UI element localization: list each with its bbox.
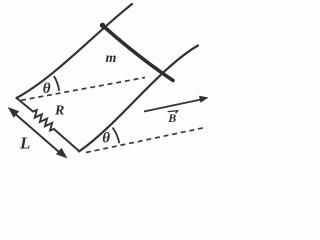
wire: top rail	[17, 4, 133, 98]
dashed reference line at vertex A	[21, 78, 145, 101]
svg-text:B: B	[167, 111, 176, 125]
wire: bottom rail	[79, 46, 198, 152]
svg-text:R: R	[54, 104, 64, 119]
wire: left side lead from vertex A to resistor	[17, 98, 34, 112]
dashed reference line at vertex B	[86, 128, 205, 153]
dimension arrow L (double-headed)	[13, 112, 63, 156]
wire: lead from resistor to bottom vertex B	[54, 129, 79, 151]
node: rod / top-rail junction blob	[100, 23, 105, 28]
svg-text:m: m	[106, 51, 117, 66]
resistor R zigzag	[33, 110, 54, 131]
conducting rod m (sliding bar)	[102, 25, 173, 81]
angle arc theta at B	[113, 128, 120, 144]
magnetic field vector B arrow	[144, 100, 201, 112]
angle arc theta at A	[54, 76, 59, 91]
svg-text:θ: θ	[43, 81, 51, 97]
vector bar over B	[168, 111, 178, 113]
svg-text:θ: θ	[102, 130, 110, 146]
svg-text:L: L	[19, 134, 30, 153]
